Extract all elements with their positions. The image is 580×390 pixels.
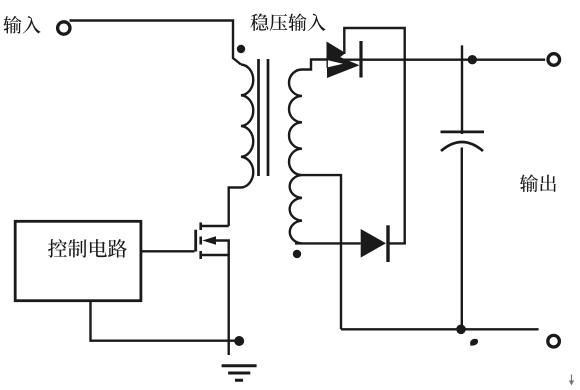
transformer core (two bars): [259, 59, 269, 176]
snubber loop wire around D1 down to D2 cathode: [344, 28, 404, 243]
diode D1 cathode bar: [359, 41, 362, 78]
label "控制电路" (control circuit): [48, 239, 127, 257]
label "稳压输入" (regulated input): [250, 13, 325, 31]
junction dot at output rail / capacitor tap: [468, 55, 477, 64]
wire: box bottom to ground rail: [91, 301, 238, 341]
stray comma mark: [470, 339, 478, 346]
label "输入" (input): [3, 16, 40, 34]
secondary polarity dot: [293, 250, 301, 258]
diode D1 white notch: [328, 60, 343, 67]
control circuit box U1: [15, 221, 141, 300]
MOSFET Q1 drain lead: [202, 225, 229, 227]
wire: D2 cathode to loop corner: [389, 242, 406, 244]
junction dot at source / ground rail: [234, 336, 244, 346]
MOSFET Q1 source lead down to ground: [202, 255, 229, 355]
MOSFET Q1 body arrow: [202, 236, 216, 244]
junction dot on bottom rail: [456, 325, 466, 335]
input terminal (open circle): [58, 22, 70, 34]
ground symbol: [222, 366, 257, 380]
capacitor C1 top lead: [461, 45, 463, 134]
diode D2 cathode bar: [386, 225, 389, 262]
wire: secondary top step to diode D1 anode: [302, 60, 330, 70]
MOSFET Q1 channel stubs: [199, 223, 202, 260]
primary polarity dot: [237, 45, 245, 53]
wire: D1 cathode to output+ terminal: [358, 59, 545, 61]
wire: secondary bottom to diode D2 anode: [295, 242, 361, 244]
diode D1 upper triangle: [327, 42, 346, 69]
transformer secondary winding L2 (7 humps): [289, 70, 302, 244]
output+ terminal (open circle): [548, 54, 560, 66]
capacitor C1 bottom lead: [461, 148, 463, 330]
capacitor C1 curved plate: [441, 142, 483, 151]
diode D1 lower triangle: [327, 52, 360, 79]
diode D2 (lower rectifier): [361, 229, 386, 258]
label "输出" (output): [520, 174, 556, 192]
capacitor C1 top plate: [441, 131, 485, 134]
wire: box to MOSFET gate: [141, 250, 195, 252]
transformer primary winding L1 (4 humps) + wire down to MOSFET drain: [229, 65, 254, 227]
bottom output rail: [341, 328, 539, 330]
MOSFET Q1 body lead: [213, 241, 229, 256]
scroll arrow artifact: [571, 375, 573, 384]
output- terminal (open circle): [548, 335, 560, 347]
wire: secondary center tap down to bottom rail: [302, 175, 341, 329]
MOSFET Q1 gate bar: [194, 230, 197, 252]
wire: input to transformer primary top: [70, 21, 242, 65]
